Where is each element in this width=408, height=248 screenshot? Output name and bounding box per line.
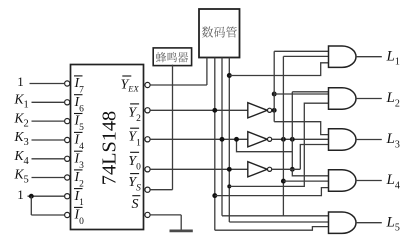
- AND gate G4: [329, 170, 356, 191]
- wire input row 2: [32, 101, 65, 103]
- svg-text:L3: L3: [386, 131, 400, 150]
- inverter U3: [248, 132, 267, 147]
- wire output L1: [356, 56, 382, 58]
- inverting bubble pin I3: [65, 156, 70, 161]
- wire input row 5: [32, 158, 65, 160]
- buzzer box 蜂鸣器: [153, 48, 191, 66]
- wire Y1 to inverter U3 input: [150, 138, 248, 140]
- display box 数码管: [199, 9, 240, 58]
- svg-text:1: 1: [17, 187, 24, 202]
- junction Y2n to L2-B: [272, 92, 277, 97]
- display text: [202, 27, 237, 38]
- wire input row 3: [32, 120, 65, 122]
- junction Y2n node: [272, 108, 277, 113]
- rail Y2n vertical: [273, 51, 275, 121]
- display leg 3 (Y1 rail down): [221, 58, 223, 216]
- wire Y2 to L4-C: [215, 188, 329, 196]
- junction leg2-Y2: [212, 108, 217, 113]
- svg-text:1: 1: [17, 74, 24, 89]
- junction Y1n to L4-B: [281, 179, 286, 184]
- display leg 2 (Y2 rail down): [214, 58, 216, 231]
- inverting bubble pin I6: [65, 100, 70, 105]
- junction bottom-1 branch: [29, 194, 34, 199]
- svg-text:L2: L2: [386, 90, 400, 109]
- wire input row 1: [30, 83, 65, 85]
- wire to L4-B: [283, 180, 328, 182]
- svg-text:S: S: [132, 197, 139, 212]
- wire Y0 to L1-C: [229, 63, 329, 76]
- inverting bubble output pin Y1: [145, 137, 150, 142]
- inverting bubble output pin Y0: [145, 167, 150, 172]
- svg-text:K3: K3: [14, 129, 29, 148]
- inverting bubble pin I5: [65, 119, 70, 124]
- inverter U4: [248, 162, 267, 177]
- wire YS to buzzer stem: [150, 189, 172, 191]
- junction Y1 bypass: [234, 137, 239, 142]
- junction leg4-Y0: [227, 167, 232, 172]
- inverting bubble output pin Y2: [145, 108, 150, 113]
- svg-text:K5: K5: [14, 167, 29, 186]
- AND gate G5: [329, 212, 357, 233]
- inverting bubble output pin YS: [145, 187, 150, 192]
- inverter U2: [248, 103, 267, 118]
- wire input row 6: [32, 177, 65, 179]
- ground symbol: [170, 229, 193, 232]
- wire output L2: [356, 98, 382, 100]
- wire inv U4 out: [272, 168, 301, 170]
- IC 74LS148 U1: [71, 65, 144, 230]
- junction Y0n node: [290, 167, 295, 172]
- wire branch to I0: [31, 214, 64, 216]
- svg-text:74LS148: 74LS148: [98, 111, 120, 185]
- wire Y0n to L4-A: [292, 169, 328, 176]
- wire S to ground: [150, 214, 181, 216]
- buzzer text: [156, 52, 188, 63]
- junction leg3-Y1: [220, 137, 225, 142]
- junction leg4 Y0 to L1-C: [227, 73, 232, 78]
- wire output L4: [356, 180, 382, 182]
- wire output L3: [356, 139, 382, 141]
- wire Y2 to L5-C: [215, 227, 329, 231]
- junction Y1n node: [281, 137, 286, 142]
- junction leg4 to L2-C rail: [227, 184, 231, 188]
- svg-text:K2: K2: [14, 110, 29, 129]
- wire Y2n to L1-A: [274, 50, 329, 52]
- wire output L5: [356, 222, 382, 224]
- display leg 1: [206, 58, 208, 86]
- wire Y0 to L2-C: [229, 103, 328, 186]
- wire Y_EX to display leg1: [150, 84, 207, 86]
- svg-text:L1: L1: [386, 48, 400, 67]
- wire Y1 bypass: [237, 139, 293, 151]
- AND gate G1: [329, 46, 357, 67]
- svg-text:K4: K4: [14, 148, 30, 167]
- buzzer stem wire: [172, 65, 174, 190]
- inverting bubble pin I2: [65, 175, 70, 180]
- ground stem wire: [180, 215, 182, 230]
- inverting bubble pin I4: [65, 137, 70, 142]
- wire 1 to I1: [28, 195, 65, 197]
- wire inv U2 out: [272, 109, 275, 111]
- inverting bubble output pin S: [145, 212, 150, 217]
- svg-text:K1: K1: [14, 92, 29, 111]
- wire inv U3 out to L3-B: [272, 138, 329, 140]
- wire branch down: [30, 196, 32, 215]
- inverting bubble pin I7: [65, 81, 70, 86]
- wire to L2-A: [292, 91, 328, 93]
- junction leg2 L4-C feed: [212, 193, 217, 198]
- wire Y0n to L3-C: [300, 145, 328, 170]
- wire Y0 to inverter U4 input: [150, 168, 248, 170]
- rail node C vertical: [291, 92, 293, 170]
- wire Y2 to inverter U2 input: [150, 109, 248, 111]
- wire Y0 to L5-B: [229, 221, 328, 223]
- AND gate G3: [329, 129, 356, 150]
- wire input row 4: [32, 139, 65, 141]
- rail Y1n vertical: [282, 56, 284, 215]
- junction Y1n bypass: [290, 137, 295, 142]
- inverting bubble pin I0: [65, 212, 70, 217]
- inverting bubble pin I1: [65, 194, 70, 199]
- display leg 4 (Y0 rail down): [228, 58, 230, 223]
- svg-text:L4: L4: [386, 172, 400, 191]
- wire Y1n to L1-B: [283, 55, 329, 57]
- AND gate G2: [329, 88, 357, 109]
- svg-text:L5: L5: [386, 214, 400, 233]
- wire Y2n to L2-B: [274, 93, 328, 95]
- inverting bubble output pin Y_EX: [145, 82, 150, 87]
- wire Y1 to L5-A: [222, 215, 329, 217]
- wire Y2n to L3-A staircase: [274, 122, 328, 135]
